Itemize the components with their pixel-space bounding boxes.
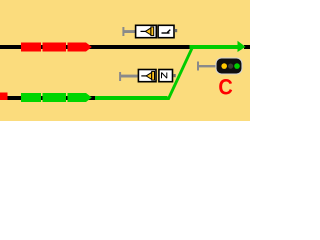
svg-text:C: C [218,75,232,100]
